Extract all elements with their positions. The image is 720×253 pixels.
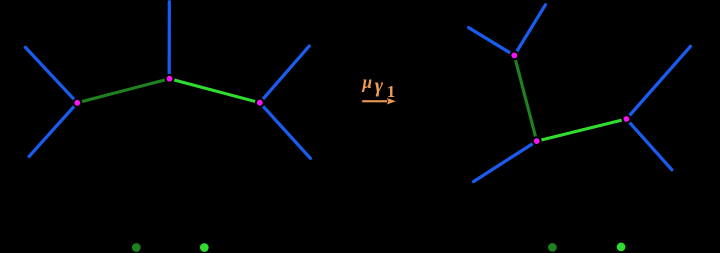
svg-text:γ: γ <box>375 75 384 97</box>
svg-text:1: 1 <box>387 82 396 101</box>
svg-text:μ: μ <box>361 72 372 92</box>
